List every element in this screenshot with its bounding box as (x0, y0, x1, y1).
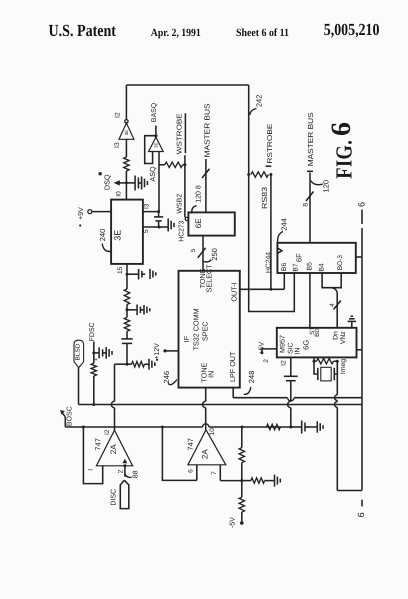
svg-text:MASTER BUS: MASTER BUS (203, 103, 212, 157)
svg-text:BD: BD (314, 328, 321, 337)
svg-text:3E: 3E (153, 143, 158, 148)
svg-text:I3: I3 (114, 142, 121, 148)
svg-text:B4: B4 (319, 263, 326, 272)
svg-text:120 8: 120 8 (195, 185, 202, 203)
svg-text:FDSC: FDSC (89, 322, 96, 341)
svg-text:6: 6 (326, 122, 357, 136)
svg-text:LPF OUT: LPF OUT (228, 351, 237, 382)
svg-text:6: 6 (187, 469, 194, 473)
svg-text:SIC: SIC (287, 342, 294, 353)
svg-text:Apr. 2, 1991: Apr. 2, 1991 (151, 27, 201, 39)
svg-text:7: 7 (211, 471, 218, 475)
svg-text:+9V: +9V (78, 207, 85, 220)
svg-text:HC244: HC244 (265, 252, 272, 273)
svg-text:6G: 6G (301, 340, 310, 350)
svg-text:Dn: Dn (333, 331, 340, 340)
svg-text:RSTROBE: RSTROBE (267, 123, 274, 163)
svg-text:Sheet 6 of 11: Sheet 6 of 11 (236, 27, 289, 39)
svg-text:6E: 6E (194, 218, 203, 228)
svg-text:BO-3: BO-3 (337, 255, 344, 270)
svg-text:DSQ: DSQ (103, 174, 112, 190)
svg-text:2: 2 (263, 359, 270, 363)
svg-text:ASQ: ASQ (148, 166, 157, 182)
svg-text:U.S. Patent: U.S. Patent (49, 21, 117, 40)
svg-text:B7: B7 (293, 263, 300, 272)
svg-text:I0: I0 (115, 191, 122, 197)
svg-text:I: I (87, 469, 94, 471)
svg-text:VNz: VNz (340, 331, 347, 344)
svg-text:244: 244 (280, 218, 289, 231)
svg-text:4: 4 (329, 303, 336, 307)
svg-text:5,005,210: 5,005,210 (324, 20, 380, 39)
svg-text:IF: IF (182, 335, 191, 342)
svg-text:TS32 COMM: TS32 COMM (191, 308, 200, 350)
svg-text:747: 747 (186, 438, 195, 451)
svg-text:I3: I3 (143, 203, 150, 209)
svg-text:246: 246 (162, 371, 171, 384)
svg-text:BOSC: BOSC (66, 406, 73, 426)
svg-text:I2: I2 (104, 429, 111, 435)
svg-text:B5: B5 (306, 262, 313, 271)
svg-text:WSB2: WSB2 (176, 194, 183, 214)
svg-text:M957: M957 (280, 335, 287, 353)
svg-text:I2: I2 (115, 112, 122, 118)
svg-text:3E: 3E (124, 130, 129, 136)
svg-text:OUT-I: OUT-I (229, 282, 238, 301)
svg-text:248: 248 (247, 371, 256, 384)
svg-text:15: 15 (117, 266, 124, 274)
svg-text:6: 6 (356, 202, 366, 207)
svg-text:10: 10 (209, 428, 216, 436)
svg-text:IN: IN (206, 371, 215, 378)
svg-text:2A: 2A (109, 444, 118, 454)
svg-text:240: 240 (98, 229, 107, 242)
svg-text:BASQ: BASQ (151, 102, 158, 122)
svg-text:I2: I2 (280, 360, 287, 366)
svg-text:+: + (94, 357, 100, 361)
svg-text:3E: 3E (113, 230, 123, 241)
svg-text:FIG.: FIG. (331, 140, 356, 179)
svg-text:SPEC: SPEC (201, 321, 210, 341)
svg-text:250: 250 (210, 248, 219, 261)
svg-text:120: 120 (322, 180, 331, 193)
svg-text:+12V: +12V (154, 343, 161, 360)
svg-text:MASTER BUS: MASTER BUS (306, 112, 315, 166)
svg-text:6: 6 (356, 512, 366, 517)
svg-text:2A: 2A (200, 449, 209, 459)
svg-text:SELECT: SELECT (205, 264, 214, 293)
svg-text:-5V: -5V (229, 517, 236, 528)
svg-text:B6: B6 (281, 263, 288, 272)
svg-text:747: 747 (94, 438, 103, 451)
svg-text:88: 88 (132, 470, 139, 478)
svg-text:5: 5 (143, 229, 150, 233)
svg-text:HC273: HC273 (178, 221, 185, 242)
svg-text:Imeg: Imeg (340, 359, 347, 374)
svg-text:WSTROBE: WSTROBE (177, 113, 184, 154)
svg-text:242: 242 (255, 95, 264, 108)
svg-text:BLSD: BLSD (75, 343, 82, 361)
svg-text:6F: 6F (294, 253, 303, 262)
svg-text:8: 8 (302, 203, 309, 207)
svg-text:DISC: DISC (111, 489, 118, 506)
svg-text:RS83: RS83 (260, 187, 269, 209)
svg-text:2: 2 (117, 469, 124, 473)
